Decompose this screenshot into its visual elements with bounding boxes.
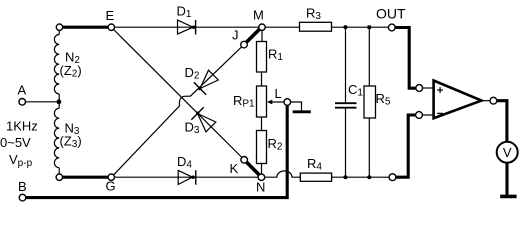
diagonal wire G to J (hops over E-K wire): [114, 47, 242, 175]
wire: E to D1: [115, 26, 196, 28]
node B: [19, 194, 26, 201]
wire: D4 to N: [196, 176, 258, 178]
svg-text:R3: R3: [306, 6, 321, 23]
wire: A to center tap: [26, 101, 58, 103]
node N: [258, 174, 265, 181]
svg-text:E: E: [106, 8, 115, 23]
svg-text:D2: D2: [185, 65, 200, 82]
resistor R1: [257, 42, 267, 73]
svg-text:Vp-p: Vp-p: [9, 152, 33, 169]
node E: [108, 24, 114, 30]
wire: L to signal ground: [291, 102, 302, 111]
svg-text:K: K: [230, 161, 239, 176]
resistor R2: [257, 131, 267, 164]
ground (voltmeter): [500, 195, 516, 199]
node M: [259, 24, 265, 30]
link J to M (thick): [246, 29, 260, 43]
svg-text:OUT: OUT: [376, 6, 406, 22]
svg-text:(Z3): (Z3): [60, 134, 82, 151]
svg-text:1KHz: 1KHz: [6, 119, 38, 134]
junction dot (C1 top): [343, 25, 347, 29]
junction dot (R5 top): [368, 25, 372, 29]
wire: R1 to RP1: [261, 72, 263, 86]
node J: [241, 41, 248, 48]
resistor R5: [364, 27, 391, 177]
resistor R4: [300, 173, 331, 181]
diode D2: [185, 65, 219, 95]
wire: R2 to N: [261, 164, 263, 175]
svg-text:J: J: [232, 28, 239, 43]
svg-text:D3: D3: [185, 120, 200, 137]
svg-text:(Z2): (Z2): [60, 63, 82, 80]
svg-text:R2: R2: [268, 136, 283, 153]
node K: [241, 157, 248, 164]
wire: bottom rail from R4 to terminal: [332, 176, 390, 178]
wire: G to D4: [115, 176, 196, 178]
svg-text:R1: R1: [268, 47, 283, 64]
svg-text:R4: R4: [307, 156, 322, 173]
svg-text:B: B: [18, 179, 27, 194]
wire: - input down to bottom rail (thick): [396, 115, 416, 177]
transformer winding N3: [54, 108, 81, 167]
wire: transformer top terminal to E (thick): [63, 26, 109, 29]
wire: output to voltmeter (thick): [497, 101, 507, 142]
svg-text:N: N: [256, 180, 265, 195]
wire: OUT to op-amp + input (thick): [395, 28, 415, 89]
junction dot (C1 bottom): [343, 175, 347, 179]
junction dot (R5 bottom): [367, 175, 371, 179]
wire: + terminal to op-amp: [423, 87, 434, 89]
svg-text:D4: D4: [177, 154, 192, 171]
node A: [19, 99, 26, 106]
op-amp U1: [434, 81, 482, 119]
svg-text:RP1: RP1: [233, 93, 255, 110]
wire: winding N2 to center tap: [58, 94, 60, 108]
transformer top terminal: [56, 24, 62, 30]
wire: top terminal to winding: [58, 30, 60, 34]
transformer winding N2: [54, 34, 81, 93]
diode D1: [177, 4, 196, 35]
op-amp + input terminal: [416, 85, 423, 92]
wire: R3 to OUT: [332, 26, 389, 28]
resistor R3: [300, 22, 332, 31]
wire: RP1 to R2: [261, 117, 263, 131]
diode D3: [185, 107, 216, 136]
capacitor C1: [335, 27, 363, 177]
op-amp output terminal: [490, 97, 497, 104]
wire: N to R4 with hop over ground riser: [265, 171, 301, 177]
svg-text:G: G: [106, 179, 116, 194]
source labels: [0, 119, 38, 170]
diode D4: [177, 154, 196, 185]
svg-text:L: L: [275, 86, 282, 101]
potentiometer wiper arm: [267, 100, 284, 105]
node OUT: [388, 24, 395, 31]
potentiometer RP1: [257, 86, 267, 117]
node L: [284, 99, 291, 106]
wire: voltmeter to ground (thick): [505, 163, 508, 195]
wire: winding N3 to bottom terminal: [58, 168, 60, 174]
transformer bottom terminal: [56, 174, 62, 180]
bottom rail terminal: [389, 174, 396, 181]
wire: D1 to M: [196, 26, 259, 28]
svg-text:M: M: [253, 8, 264, 23]
wire: transformer bottom terminal to G (thick): [63, 176, 109, 179]
wire: - terminal to op-amp: [422, 114, 433, 116]
svg-text:D1: D1: [177, 4, 192, 21]
wire: M to R1: [261, 30, 263, 41]
op-amp - input terminal: [416, 112, 423, 119]
wire: M to R3: [265, 26, 299, 28]
voltmeter V: [497, 142, 518, 163]
svg-text:C1: C1: [348, 82, 363, 99]
center tap junction: [57, 99, 62, 104]
ground (signal, near L): [293, 110, 311, 113]
svg-text:0~5V: 0~5V: [0, 135, 31, 150]
node G: [108, 174, 114, 180]
wire: B bus to ground riser up to L (thick): [26, 105, 287, 197]
link K to N (thick): [246, 162, 259, 175]
wire: op-amp apex to output terminal: [482, 100, 491, 102]
svg-text:V: V: [503, 145, 512, 160]
svg-text:R5: R5: [376, 91, 391, 108]
svg-text:A: A: [18, 83, 27, 98]
diagonal wire E to K (through D3): [114, 30, 242, 158]
